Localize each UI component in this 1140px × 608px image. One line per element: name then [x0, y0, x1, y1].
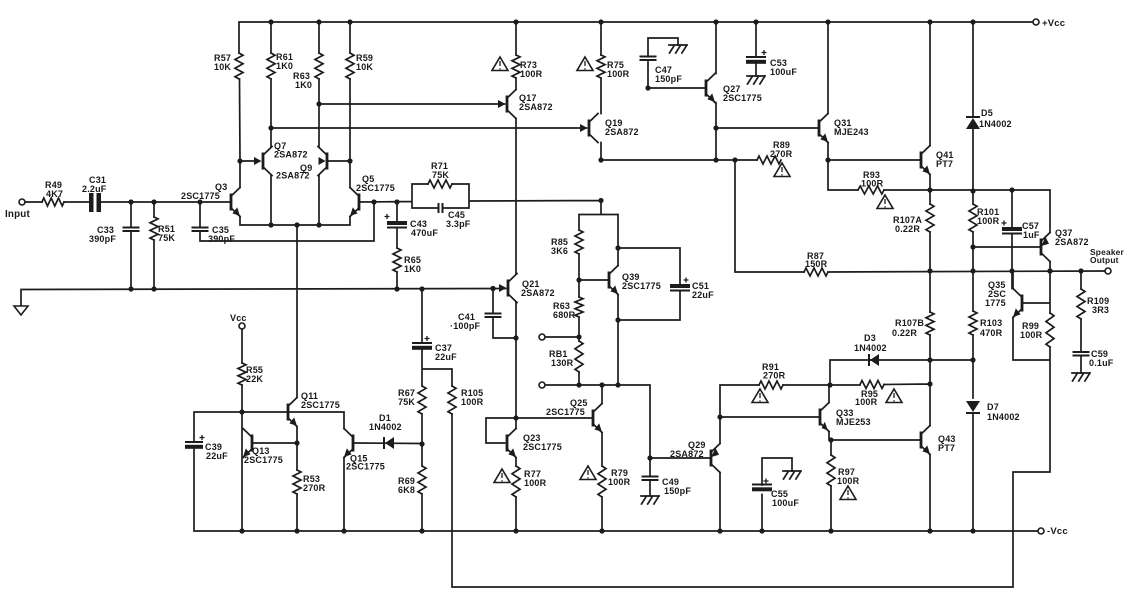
svg-text:0.1uF: 0.1uF	[1089, 358, 1114, 368]
svg-text:2SC1775: 2SC1775	[622, 281, 661, 291]
svg-text:D3: D3	[864, 333, 876, 343]
svg-text:100R: 100R	[524, 478, 547, 488]
svg-text:1N4002: 1N4002	[987, 412, 1020, 422]
svg-text:2SA872: 2SA872	[670, 449, 704, 459]
svg-text:·100pF: ·100pF	[450, 321, 481, 331]
svg-text:1775: 1775	[985, 298, 1006, 308]
svg-text:4K7: 4K7	[46, 189, 63, 199]
svg-text:100R: 100R	[977, 216, 1000, 226]
svg-text:2SC1775: 2SC1775	[523, 442, 562, 452]
svg-text:2SC1775: 2SC1775	[346, 462, 385, 472]
svg-text:100uF: 100uF	[770, 67, 797, 77]
svg-text:2SA872: 2SA872	[605, 127, 639, 137]
svg-text:100R: 100R	[837, 476, 860, 486]
svg-text:2SA872: 2SA872	[521, 288, 555, 298]
svg-text:R103: R103	[980, 318, 1002, 328]
svg-text:PT7: PT7	[936, 159, 953, 169]
svg-text:100R: 100R	[461, 397, 484, 407]
svg-text:3R3: 3R3	[1092, 305, 1109, 315]
svg-text:150pF: 150pF	[664, 486, 691, 496]
svg-text:2SC1775: 2SC1775	[356, 183, 395, 193]
svg-text:470uF: 470uF	[411, 228, 438, 238]
svg-text:2SC1775: 2SC1775	[546, 407, 585, 417]
svg-text:10K: 10K	[356, 62, 373, 72]
svg-text:MJE243: MJE243	[834, 127, 869, 137]
svg-text:680R: 680R	[553, 310, 576, 320]
svg-text:130R: 130R	[551, 358, 574, 368]
svg-text:Vcc: Vcc	[230, 313, 247, 323]
svg-text:270R: 270R	[770, 149, 793, 159]
svg-text:2SC1775: 2SC1775	[723, 93, 762, 103]
svg-text:2.2uF: 2.2uF	[82, 184, 107, 194]
svg-text:1K0: 1K0	[276, 61, 293, 71]
svg-text:100R: 100R	[1020, 330, 1043, 340]
svg-text:3K6: 3K6	[551, 246, 568, 256]
svg-text:3.3pF: 3.3pF	[446, 219, 471, 229]
svg-text:270R: 270R	[303, 483, 326, 493]
svg-text:75K: 75K	[398, 397, 415, 407]
svg-text:D7: D7	[987, 402, 999, 412]
svg-text:R107B: R107B	[895, 318, 924, 328]
svg-text:0.22R: 0.22R	[895, 224, 920, 234]
svg-text:100R: 100R	[855, 397, 878, 407]
svg-text:470R: 470R	[980, 328, 1003, 338]
svg-text:1uF: 1uF	[1023, 230, 1040, 240]
svg-text:100R: 100R	[861, 179, 884, 189]
svg-text:Output: Output	[1090, 255, 1119, 265]
svg-text:100R: 100R	[520, 69, 543, 79]
svg-text:2SA872: 2SA872	[276, 171, 310, 181]
svg-text:2SC1775: 2SC1775	[301, 400, 340, 410]
svg-text:1N4002: 1N4002	[854, 343, 887, 353]
svg-text:PT7: PT7	[938, 443, 955, 453]
svg-text:2SA872: 2SA872	[274, 150, 308, 160]
svg-text:1N4002: 1N4002	[979, 119, 1012, 129]
svg-text:100uF: 100uF	[772, 498, 799, 508]
svg-text:390pF: 390pF	[208, 234, 235, 244]
svg-text:2SC1775: 2SC1775	[181, 191, 220, 201]
svg-text:2SA872: 2SA872	[519, 102, 553, 112]
svg-text:22uF: 22uF	[435, 352, 457, 362]
svg-text:22uF: 22uF	[206, 451, 228, 461]
svg-text:+Vcc: +Vcc	[1042, 18, 1065, 29]
svg-text:2SC1775: 2SC1775	[244, 455, 283, 465]
svg-text:100R: 100R	[608, 477, 631, 487]
svg-text:22K: 22K	[246, 374, 263, 384]
svg-text:MJE253: MJE253	[836, 417, 871, 427]
svg-text:75K: 75K	[432, 170, 449, 180]
svg-text:0.22R: 0.22R	[892, 328, 917, 338]
svg-text:390pF: 390pF	[89, 234, 116, 244]
svg-text:270R: 270R	[763, 371, 786, 381]
svg-text:100R: 100R	[607, 69, 630, 79]
svg-text:2SA872: 2SA872	[1055, 237, 1089, 247]
svg-text:-Vcc: -Vcc	[1047, 526, 1068, 537]
svg-text:22uF: 22uF	[692, 290, 714, 300]
svg-text:75K: 75K	[158, 233, 175, 243]
svg-text:D5: D5	[981, 108, 993, 118]
svg-text:1K0: 1K0	[404, 264, 421, 274]
svg-text:6K8: 6K8	[398, 485, 415, 495]
svg-text:150R: 150R	[805, 259, 828, 269]
svg-text:10K: 10K	[214, 62, 231, 72]
svg-text:1K0: 1K0	[295, 80, 312, 90]
svg-text:150pF: 150pF	[655, 74, 682, 84]
svg-text:Input: Input	[5, 209, 30, 220]
svg-text:1N4002: 1N4002	[369, 422, 402, 432]
